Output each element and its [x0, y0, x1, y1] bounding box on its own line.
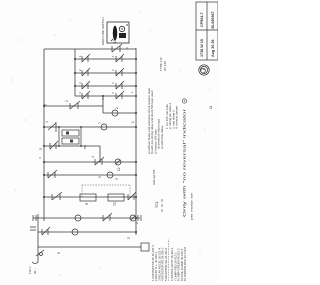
contact on rung 5 [82, 91, 124, 99]
svg-text:MAIN LINE SWITCH: MAIN LINE SWITCH [101, 17, 105, 45]
svg-text:60 ~: 60 ~ [33, 268, 37, 274]
svg-text:2: 2 [65, 100, 69, 102]
svg-text:e) with time delay: e) with time delay [160, 125, 164, 149]
lamp L2 on rung 13 [130, 215, 136, 221]
svg-text:4: 4 [45, 121, 49, 123]
contact on rung 10 [95, 157, 104, 165]
resistor R3 on rung 12 [80, 194, 96, 201]
coil M7 on rung 8 [101, 124, 107, 130]
contact on rung 3 [82, 68, 124, 76]
lamp on rung 10 [115, 159, 121, 165]
svg-text:5 RESISTOR SH 36-331-6: 5 RESISTOR SH 36-331-6 [164, 247, 168, 281]
contact on rung 14 [42, 227, 50, 235]
svg-text:12: 12 [117, 167, 121, 171]
contact on rung 6 [70, 101, 80, 109]
wire: rung 8 [44, 126, 136, 128]
contact on rung 13 [103, 213, 112, 221]
svg-text:TC1: TC1 [155, 201, 159, 208]
switch with button bottom-left [32, 250, 44, 264]
svg-text:per motor sw: per motor sw [190, 192, 194, 220]
wire: rung 3 [75, 72, 136, 74]
wire: feeder bus [74, 49, 76, 96]
box at end of rung 15 [141, 243, 149, 251]
wire: top supply rail L1 [43, 49, 45, 221]
schematic drawn in landscape coords, rotated 90deg CCW into portrait [28, 2, 218, 281]
svg-text:10 TERM BLOCK 36-710-8: 10 TERM BLOCK 36-710-8 [183, 247, 187, 281]
contact K1 on rung 1 [112, 44, 122, 52]
rung 13 end ticks [138, 215, 141, 221]
contact on rung 2 [82, 54, 124, 62]
scan noise specks [12, 12, 211, 276]
svg-text:TC: TC [113, 201, 117, 206]
wire: rung 14 [38, 231, 137, 233]
svg-text:9: 9 [98, 176, 102, 178]
contact on rung 12 [52, 192, 62, 200]
terminal ticks rung 13 [33, 215, 36, 221]
svg-text:1: 1 [131, 121, 135, 123]
wire: rung 11 [44, 174, 136, 176]
wire: rung 4 [75, 85, 136, 87]
type note [159, 57, 167, 71]
svg-text:5: 5 [39, 148, 43, 150]
switch on rung 8 top [48, 122, 56, 132]
svg-text:4. remove jumper: 4. remove jumper [175, 106, 179, 129]
svg-text:36-690667: 36-690667 [211, 11, 215, 29]
indicator note [182, 99, 186, 217]
wire: bottom-left supply line [37, 214, 39, 262]
svg-text:with tap 5%: with tap 5% [152, 169, 156, 185]
wire: rung 13 [33, 217, 140, 219]
thermal element TC on rung 12 [108, 194, 124, 201]
terminal ticks L1b [30, 227, 36, 230]
svg-text:CP504-7: CP504-7 [200, 12, 204, 27]
wire: rung 2 [75, 58, 136, 60]
legend box [107, 22, 129, 43]
junction dots [43, 58, 137, 233]
meter on rung 13 [75, 215, 81, 221]
contact on rung 9 [50, 141, 58, 149]
wire: rung 5 [75, 95, 136, 97]
svg-text:5%: 5% [83, 144, 87, 149]
contact on rung 4 [82, 81, 124, 89]
notes list [147, 87, 164, 154]
svg-text:5: 5 [127, 237, 131, 239]
svg-text:15: 15 [113, 39, 117, 43]
svg-text:2: 2 [115, 107, 119, 109]
dashed bracket [82, 185, 130, 197]
svg-text:110 V: 110 V [28, 266, 32, 274]
wire: rung 15 [38, 246, 141, 248]
contact pilot labels [38, 47, 134, 159]
coil M3 on rung 11 [107, 172, 113, 178]
contact on rung 11 [48, 170, 57, 178]
svg-text:7: 7 [98, 122, 102, 124]
wire: rung 12 [44, 196, 136, 198]
meter on rung 14 [72, 229, 78, 235]
wire: rung 7 [103, 96, 136, 113]
svg-text:2: 2 [135, 222, 139, 224]
title block [196, 2, 218, 60]
wire: rung 6 [44, 105, 103, 107]
wire: rung 9 [44, 146, 100, 162]
wire: rung 1 vertical [44, 48, 136, 50]
svg-text:11: 11 [209, 105, 213, 109]
coil M2 on rung 7 [112, 110, 118, 116]
resistor R1 branch pair between rung 8 and rung 9 [58, 126, 82, 147]
wire: rung 10 [44, 161, 136, 163]
svg-text:3C 240: 3C 240 [163, 61, 167, 71]
svg-text:6: 6 [57, 252, 61, 254]
GE monogram [199, 65, 209, 75]
dash marks [161, 199, 163, 212]
svg-text:3: 3 [115, 178, 119, 180]
parts list [151, 239, 187, 281]
svg-text:Aug 30.35: Aug 30.35 [211, 40, 215, 57]
svg-text:1738 W 15: 1738 W 15 [200, 39, 204, 57]
notes list 2 [165, 102, 179, 129]
svg-text:4: 4 [91, 156, 95, 158]
svg-text:Only with "no reversal" indica: Only with "no reversal" indicator [183, 107, 187, 217]
wire: bottom rail L2 [135, 48, 137, 235]
contact on rung 12 bottom [128, 192, 136, 200]
